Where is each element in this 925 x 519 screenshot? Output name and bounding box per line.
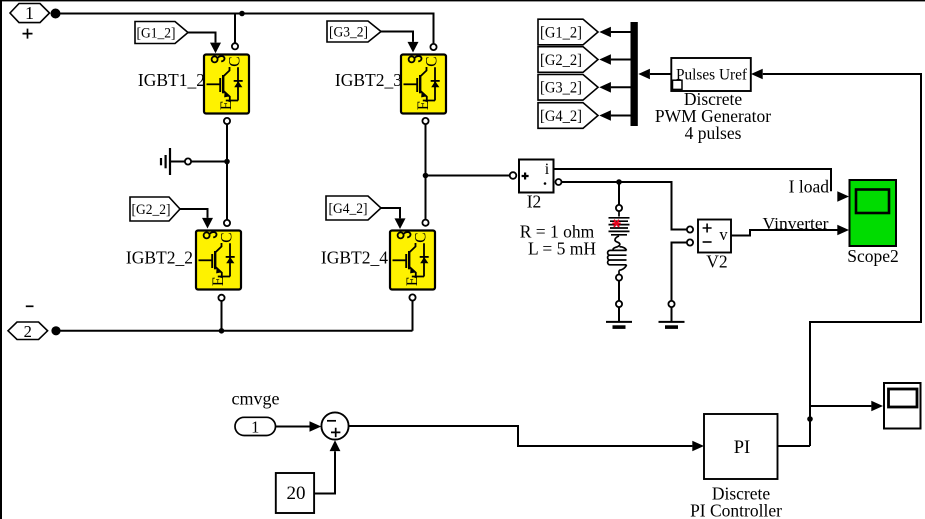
wire down to RLC branch xyxy=(618,182,620,205)
svg-text:PI Controller: PI Controller xyxy=(690,501,782,519)
node C port IGBT2_4 xyxy=(422,220,428,226)
svg-text:1: 1 xyxy=(25,3,34,23)
svg-text:I load: I load xyxy=(789,177,830,197)
svg-text:Vinverter: Vinverter xyxy=(763,214,829,233)
Goto tag [G2_2] xyxy=(538,47,598,73)
series RLC branch R=1ohm L=5mH xyxy=(608,211,630,274)
wire E2_4 down to bottom bus xyxy=(412,301,414,331)
node I2 - port xyxy=(556,179,562,185)
svg-text:[G2_2]: [G2_2] xyxy=(132,202,171,218)
input port 1 cmvge xyxy=(235,417,276,436)
svg-text:IGBT2_4: IGBT2_4 xyxy=(321,248,388,268)
Goto tag [G3_2] xyxy=(538,75,598,101)
node junction on top bus xyxy=(239,11,245,17)
svg-text:[G3_2]: [G3_2] xyxy=(329,25,368,41)
wire bottom DC bus xyxy=(61,330,413,332)
node V2 - port xyxy=(687,239,693,245)
svg-text:[G4_2]: [G4_2] xyxy=(329,201,368,217)
svg-text:2: 2 xyxy=(24,322,32,341)
node E port IGBT2_4 xyxy=(409,294,415,300)
svg-text:PI: PI xyxy=(734,438,750,458)
plus polarity label xyxy=(23,29,33,39)
wire top DC bus xyxy=(60,14,434,44)
wire demux out3 xyxy=(611,86,631,88)
svg-text:cmvge: cmvge xyxy=(232,389,280,409)
wire G2_2 to gate of IGBT2_2 xyxy=(180,209,208,218)
wire sum output to PI input xyxy=(349,426,693,446)
svg-text:IGBT1_2: IGBT1_2 xyxy=(138,70,205,90)
svg-text:[G1_2]: [G1_2] xyxy=(540,24,582,41)
node C port IGBT2_2 xyxy=(224,220,230,226)
node junction left leg xyxy=(224,159,230,165)
IGBT2_4 xyxy=(390,231,435,290)
node junction bottom bus xyxy=(219,328,225,334)
wire PI output to Uref input (feedback) xyxy=(763,74,921,446)
node junction right leg xyxy=(423,173,429,179)
input port 1 (+ DC terminal) xyxy=(10,3,50,23)
node at port 2 xyxy=(51,326,60,335)
wire V2 output to Scope2 input 2 xyxy=(731,230,838,236)
wire G3_2 to gate of IGBT2_3 xyxy=(381,32,413,42)
scope Scope2 xyxy=(850,180,897,246)
wire cmvge to sum xyxy=(276,426,310,428)
wire G4_2 to gate of IGBT2_4 xyxy=(381,208,400,218)
current measurement I2 xyxy=(519,160,554,193)
svg-text:i: i xyxy=(545,161,550,178)
Discrete PI Controller block xyxy=(704,414,778,479)
svg-text:L = 5 mH: L = 5 mH xyxy=(528,239,596,259)
wire PWM pulses output to demux xyxy=(650,73,671,75)
node junction on feedback wire xyxy=(807,416,813,422)
scope (small) xyxy=(884,383,921,429)
node RLC branch top port xyxy=(616,205,622,211)
svg-text:Pulses Uref: Pulses Uref xyxy=(676,67,748,84)
wire PI output xyxy=(778,445,811,447)
output port 2 (- DC terminal) xyxy=(8,322,48,341)
wire demux out1 xyxy=(611,31,631,33)
From tag [G2_2] xyxy=(130,197,180,221)
wire branch to scope xyxy=(810,405,871,407)
svg-text:1: 1 xyxy=(251,417,259,436)
Discrete PWM Generator block xyxy=(671,58,751,91)
From tag [G3_2] xyxy=(327,21,381,42)
svg-text:[G3_2]: [G3_2] xyxy=(540,80,582,97)
node ground port xyxy=(185,158,191,164)
wire G1_2 to gate of IGBT1_2 xyxy=(188,33,216,43)
svg-text:IGBT2_2: IGBT2_2 xyxy=(126,248,193,268)
sum block xyxy=(321,412,348,439)
IGBT2_2 xyxy=(196,231,241,290)
svg-text:20: 20 xyxy=(287,483,306,504)
ground under RLC xyxy=(606,307,632,327)
node E port IGBT1_2 xyxy=(224,118,230,124)
demux bar xyxy=(631,22,638,126)
wire I2 - to load node and V2 + xyxy=(562,182,687,230)
wire E2_2 down to bottom bus xyxy=(221,301,223,331)
minus polarity label xyxy=(26,305,34,307)
wire demux out2 xyxy=(611,59,631,61)
wire RLC to ground xyxy=(618,281,620,301)
node E port IGBT2_2 xyxy=(218,295,224,301)
Goto tag [G4_2] xyxy=(538,103,598,129)
svg-text:IGBT2_3: IGBT2_3 xyxy=(335,70,402,90)
ground (rotated, midpoint clamp) xyxy=(161,148,185,175)
wire to ground G xyxy=(191,161,227,163)
svg-text:4 pulses: 4 pulses xyxy=(685,123,742,143)
node E port IGBT2_3 xyxy=(422,118,428,124)
node C port IGBT1_2 xyxy=(232,43,238,49)
node at port 1 xyxy=(51,9,61,19)
svg-text:V2: V2 xyxy=(706,252,727,272)
Goto tag [G1_2] xyxy=(538,19,598,45)
red sample mark on branch xyxy=(612,220,620,227)
From tag [G1_2] xyxy=(135,22,188,44)
wire demux out4 xyxy=(611,115,631,117)
node C port IGBT2_3 xyxy=(430,44,436,50)
wire branch to IGBT1_2 collector xyxy=(234,14,236,43)
svg-text:Scope2: Scope2 xyxy=(847,246,899,266)
wire left leg E1 to C of IGBT2_2 xyxy=(226,124,228,220)
node RLC branch bottom port xyxy=(616,275,622,281)
svg-text:[G2_2]: [G2_2] xyxy=(540,52,582,69)
constant 20 xyxy=(276,473,314,513)
node V2 + port xyxy=(687,226,693,232)
wire I2 i output to Scope2 input 1 xyxy=(554,169,832,191)
IGBT2_3 xyxy=(401,55,446,114)
node junction RLC branch top xyxy=(616,179,622,185)
node ground port xyxy=(616,301,622,307)
wire right leg E3 to C of IGBT2_4 xyxy=(425,124,427,219)
wire junction to I2 xyxy=(426,175,510,177)
svg-text:[G1_2]: [G1_2] xyxy=(137,26,176,42)
ground under V2 xyxy=(659,307,685,327)
svg-text:[G4_2]: [G4_2] xyxy=(540,108,582,125)
voltage measurement V2 xyxy=(698,220,731,253)
From tag [G4_2] xyxy=(326,196,381,220)
node ground port 2 xyxy=(668,301,674,307)
svg-text:v: v xyxy=(719,225,728,244)
wire 20 to sum xyxy=(314,451,335,493)
node I2 + port xyxy=(510,172,517,179)
svg-text:I2: I2 xyxy=(527,192,542,212)
IGBT1_2 xyxy=(204,55,249,114)
wire V2 - to ground xyxy=(672,243,687,301)
